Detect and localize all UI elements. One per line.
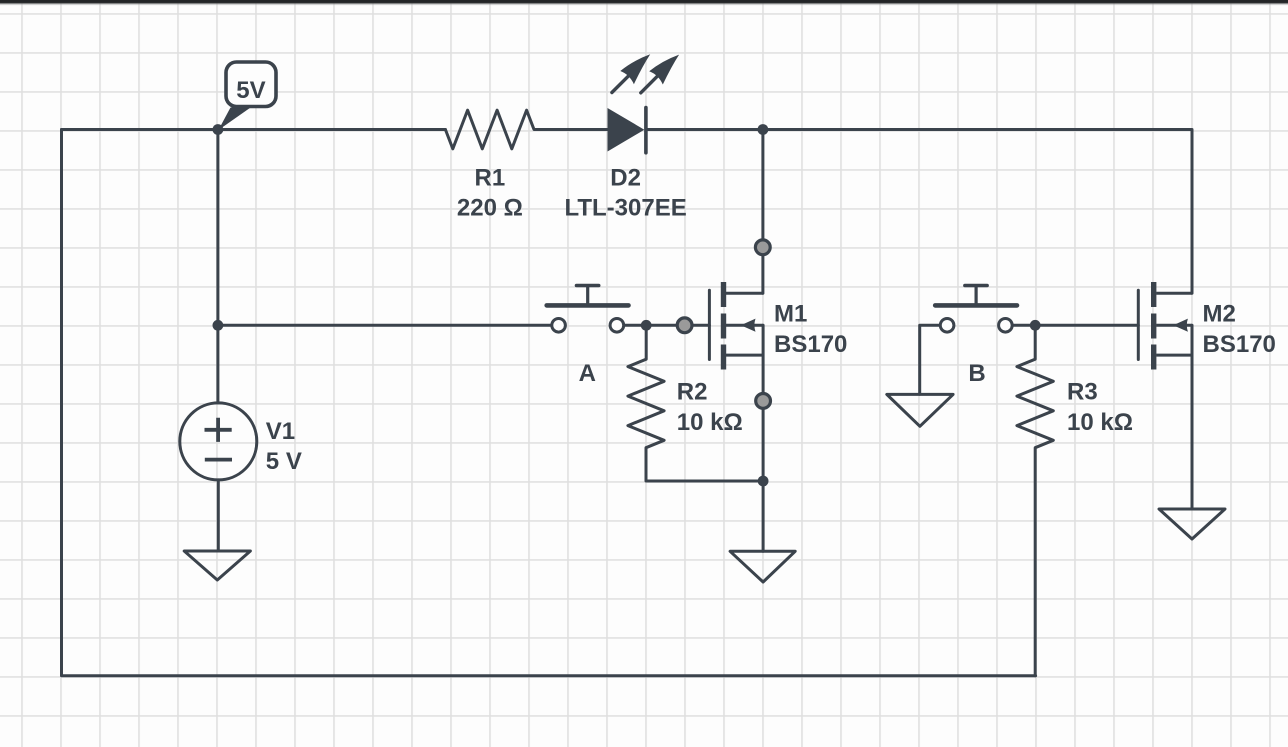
svg-text:10 kΩ: 10 kΩ [677,409,743,436]
svg-text:B: B [968,360,985,387]
svg-text:D2: D2 [610,164,641,191]
svg-text:5V: 5V [236,77,265,104]
svg-text:V1: V1 [266,418,295,445]
svg-text:BS170: BS170 [774,331,847,358]
svg-text:A: A [579,360,596,387]
svg-text:R2: R2 [677,379,708,406]
svg-text:M2: M2 [1203,301,1236,328]
svg-text:R1: R1 [475,164,506,191]
svg-text:BS170: BS170 [1203,331,1276,358]
svg-text:M1: M1 [774,301,807,328]
svg-text:LTL-307EE: LTL-307EE [564,195,686,222]
svg-text:10 kΩ: 10 kΩ [1067,409,1133,436]
svg-text:5 V: 5 V [266,448,302,475]
svg-text:220 Ω: 220 Ω [457,195,523,222]
svg-text:R3: R3 [1067,379,1098,406]
